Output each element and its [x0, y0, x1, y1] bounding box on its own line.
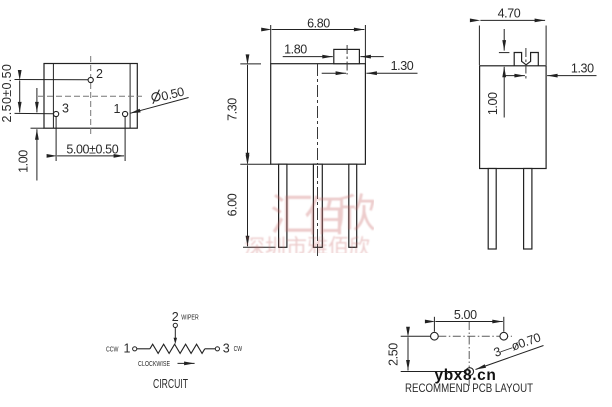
- front leg 3: [349, 164, 357, 247]
- top view body outline: [44, 64, 137, 129]
- top view right inner edge line: [129, 64, 131, 129]
- pin 1 hole: [123, 111, 128, 116]
- bottom leader line (2.50): [401, 371, 466, 373]
- svg-text:6.80: 6.80: [307, 17, 330, 31]
- screw top tick: [499, 52, 510, 54]
- svg-text:3: 3: [62, 102, 69, 116]
- arrow up to bottom edge: [36, 129, 38, 180]
- pcb hole right: [500, 332, 508, 340]
- arrow down to screw top: [503, 29, 505, 51]
- dimension 6.00 line: [247, 165, 249, 246]
- 7.30 bottom tick: [240, 163, 270, 165]
- svg-text:CIRCUIT: CIRCUIT: [153, 377, 188, 391]
- 7.30 top tick: [240, 63, 261, 65]
- pcb hole left: [431, 332, 439, 340]
- pin 3 extension line: [55, 117, 57, 161]
- svg-text:1.00: 1.00: [486, 92, 500, 115]
- svg-text:CCW: CCW: [106, 344, 119, 353]
- dimension 1.00 line (side): [503, 67, 505, 118]
- terminal 2 circle: [173, 323, 177, 327]
- top leader line (2.50): [401, 335, 431, 337]
- dimension 6.80 line: [272, 29, 365, 31]
- 3-ø0.70 leader line: [476, 346, 544, 370]
- screw with slot outline: [514, 53, 538, 66]
- clockwise arrow: [178, 362, 195, 364]
- 1.80 arrow left: [360, 56, 383, 58]
- 6.00 bottom tick: [243, 246, 276, 248]
- svg-text:3: 3: [223, 341, 230, 355]
- pcb vertical center dashed line: [468, 322, 470, 386]
- front view body outline: [271, 64, 366, 165]
- screw center line: [525, 48, 527, 80]
- diameter symbol slash: [153, 90, 160, 104]
- dashed line through top holes: [438, 335, 512, 337]
- side leg 2: [524, 169, 532, 250]
- top view horizontal center line (dashed): [38, 95, 142, 97]
- svg-text:1: 1: [124, 341, 131, 355]
- bottom edge tick: [31, 127, 45, 129]
- svg-text:1.30: 1.30: [391, 59, 414, 73]
- front leg 2: [313, 164, 322, 247]
- 1.30 arrow to screw center (front): [322, 72, 346, 74]
- pin 2 hole: [88, 77, 93, 82]
- svg-text:WIPER: WIPER: [181, 313, 199, 322]
- pin 3 leader line: [15, 112, 54, 114]
- svg-text:1.00: 1.00: [17, 150, 31, 173]
- svg-text:2: 2: [96, 67, 103, 81]
- wire resistor to terminal 3: [205, 348, 216, 350]
- 1.30 arrow to body edge (front): [366, 72, 417, 74]
- 1.30 arrow to body edge (side): [547, 75, 596, 77]
- 6.80 right extension line: [364, 25, 366, 64]
- svg-text:4.70: 4.70: [498, 7, 521, 21]
- svg-text:RECOMMEND PCB LAYOUT: RECOMMEND PCB LAYOUT: [405, 381, 534, 395]
- dimension 4.70 line: [480, 19, 545, 21]
- screw bump center line: [346, 45, 348, 75]
- top view vertical center line (dashed): [90, 56, 92, 134]
- 5.00 right extension line: [503, 317, 505, 332]
- front view vertical center line: [317, 64, 319, 256]
- svg-text:5.00: 5.00: [454, 308, 477, 322]
- 6.80 left extension line: [270, 25, 272, 64]
- svg-text:2.50: 2.50: [387, 343, 401, 366]
- wiper arrow: [174, 338, 177, 344]
- svg-text:2: 2: [172, 310, 179, 324]
- terminal 1 circle: [133, 347, 137, 351]
- 4.70 right extension line: [545, 26, 547, 66]
- dimension 2.50±0.50 line: [19, 81, 21, 113]
- wire terminal 1 to resistor: [137, 348, 150, 350]
- pin 3 hole: [54, 111, 59, 116]
- terminal 3 circle: [215, 347, 219, 351]
- dimension 5.00 line (pcb): [435, 321, 502, 323]
- svg-text:5.00±0.50: 5.00±0.50: [66, 142, 118, 156]
- center line through leg 2: [317, 166, 319, 256]
- pin 2 leader line: [15, 79, 89, 81]
- 4.70 left extension line: [478, 26, 480, 66]
- watermark red characters (front view area): [244, 191, 376, 259]
- svg-text:1.80: 1.80: [284, 42, 307, 56]
- svg-text:1.30: 1.30: [571, 62, 594, 76]
- screw bump outline: [334, 49, 360, 63]
- front leg 1: [279, 164, 287, 247]
- svg-text:CLOCKWISE: CLOCKWISE: [138, 359, 170, 368]
- pin 1 extension line: [124, 117, 126, 161]
- side view body outline: [480, 66, 546, 169]
- 1.80 arrow right: [283, 56, 333, 58]
- diameter symbol circle: [152, 93, 160, 101]
- diameter 0.50 leader line: [130, 98, 189, 114]
- arrow down to pin3 row: [36, 88, 38, 112]
- side leg 1: [488, 169, 496, 250]
- svg-text:6.00: 6.00: [225, 193, 239, 216]
- 1.30 arrow to screw center (side): [504, 75, 525, 77]
- svg-text:1: 1: [114, 102, 121, 116]
- svg-text:2.50±0.50: 2.50±0.50: [0, 64, 14, 122]
- wiper wire: [174, 328, 176, 339]
- svg-text:CW: CW: [234, 344, 243, 353]
- dimension 7.30 line: [247, 65, 249, 163]
- dimension 5.00±0.50 line: [57, 155, 124, 157]
- resistor zigzag: [150, 344, 205, 353]
- svg-text:欣: 欣: [336, 192, 376, 236]
- top view left inner edge line: [52, 64, 54, 129]
- svg-text:7.30: 7.30: [225, 98, 239, 121]
- 5.00 left extension line: [433, 317, 435, 332]
- pcb hole bottom: [466, 368, 474, 376]
- dimension 2.50 line (pcb): [407, 337, 409, 370]
